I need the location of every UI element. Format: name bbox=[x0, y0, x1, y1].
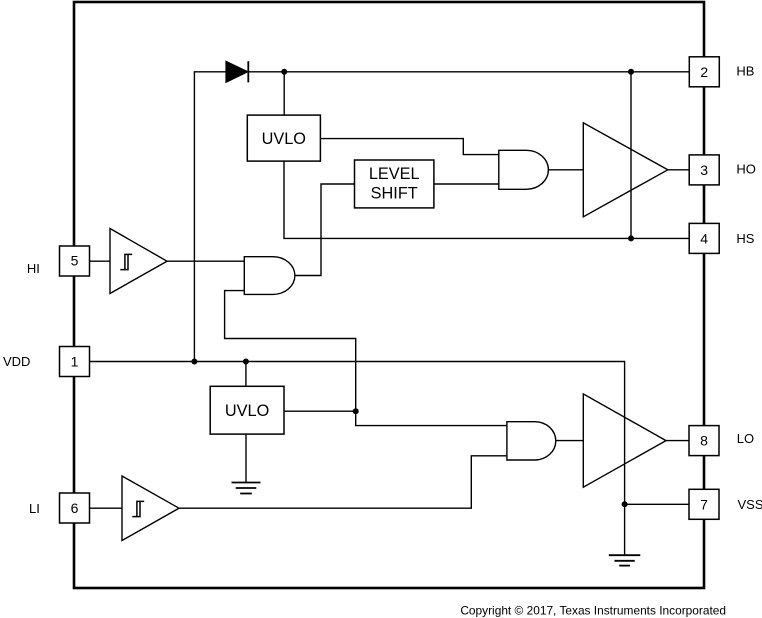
svg-text:HS: HS bbox=[736, 231, 754, 246]
buffer LO driver bbox=[583, 394, 666, 487]
wire LI pin to Schmitt buffer bbox=[90, 507, 123, 509]
node HB-driver junction bbox=[628, 69, 634, 75]
svg-text:LEVEL: LEVEL bbox=[369, 165, 420, 183]
wire HI pin to Schmitt buffer bbox=[90, 260, 111, 262]
buffer HI Schmitt trigger bbox=[110, 229, 167, 294]
ground (VSS) bbox=[609, 555, 641, 565]
pin 8 LO bbox=[689, 426, 719, 456]
wire HB rail (diode cathode to pin 2) bbox=[248, 71, 689, 73]
wire LO driver to pin 8 bbox=[666, 440, 689, 442]
wire high-side UVLO bottom to HS line bbox=[284, 161, 689, 238]
svg-text:LI: LI bbox=[29, 501, 40, 516]
svg-text:8: 8 bbox=[700, 433, 708, 449]
wire VDD to bootstrap diode anode bbox=[194, 72, 226, 362]
node VSS junction bbox=[622, 501, 628, 507]
pin 5 HI bbox=[60, 246, 90, 276]
wire low-side UVLO to ground bbox=[245, 434, 247, 482]
LEVEL SHIFT block bbox=[355, 160, 434, 208]
wire VDD rail pin 1 across and down through LO driver bbox=[90, 362, 625, 505]
svg-text:Copyright © 2017, Texas Instru: Copyright © 2017, Texas Instruments Inco… bbox=[460, 604, 726, 618]
node VDD-UVLO junction bbox=[243, 359, 249, 365]
UVLO block U3 (VDD low side) bbox=[210, 386, 284, 434]
node VDD-bootstrap junction bbox=[191, 359, 197, 365]
wire AND to HO driver bbox=[548, 169, 583, 171]
wire low-side UVLO output bbox=[284, 410, 356, 412]
wire HI buffer to AND gate bbox=[167, 260, 244, 262]
wire VSS line to pin 7 bbox=[625, 503, 689, 505]
AND gate (low side output stage) bbox=[507, 422, 556, 460]
wire VSS to ground bbox=[624, 504, 626, 555]
buffer HO driver bbox=[583, 123, 668, 217]
node HS-driver junction bbox=[628, 235, 634, 241]
wire LI buffer to LO AND gate bbox=[179, 456, 507, 508]
svg-text:5: 5 bbox=[71, 252, 79, 268]
pin 7 VSS bbox=[689, 489, 719, 519]
UVLO block U2 (high side) bbox=[247, 115, 320, 161]
wire UVLO-OK to LO AND gate bbox=[356, 411, 507, 425]
svg-text:2: 2 bbox=[700, 64, 708, 80]
svg-text:UVLO: UVLO bbox=[225, 402, 269, 420]
node UVLO-OK junction bbox=[353, 408, 359, 414]
buffer LI Schmitt trigger bbox=[122, 476, 179, 541]
wire HB to HS through HO driver bbox=[630, 72, 632, 239]
wire HO driver to pin 3 bbox=[668, 169, 689, 171]
svg-text:HO: HO bbox=[736, 162, 756, 177]
wire HI AND output up to LEVEL SHIFT input bbox=[295, 184, 355, 276]
svg-text:4: 4 bbox=[700, 231, 708, 247]
svg-text:VDD: VDD bbox=[3, 354, 30, 369]
wire HB junction down to high-side UVLO bbox=[283, 72, 285, 115]
wire AND to LO driver bbox=[556, 440, 584, 442]
wire VDD UVLO-OK to HI AND gate bbox=[225, 291, 356, 412]
pin 1 VDD bbox=[60, 347, 90, 377]
AND gate (high side input) bbox=[244, 257, 295, 295]
svg-text:VSS: VSS bbox=[738, 497, 762, 512]
pin 2 HB bbox=[689, 57, 719, 87]
svg-text:LO: LO bbox=[737, 431, 754, 446]
svg-text:7: 7 bbox=[700, 496, 708, 512]
IC boundary bbox=[74, 2, 704, 588]
diode D1 bootstrap bbox=[226, 61, 248, 82]
pin 4 HS bbox=[689, 223, 719, 253]
svg-text:HI: HI bbox=[27, 261, 40, 276]
wire LEVEL SHIFT output to AND gate bbox=[434, 183, 499, 185]
svg-text:HB: HB bbox=[736, 63, 754, 78]
svg-text:3: 3 bbox=[700, 162, 708, 178]
svg-text:6: 6 bbox=[71, 500, 79, 516]
AND gate (high side output stage) bbox=[499, 150, 549, 189]
pin 6 LI bbox=[60, 493, 90, 523]
ground (low-side UVLO) bbox=[232, 483, 261, 494]
wire VDD down to low-side UVLO bbox=[245, 362, 247, 387]
svg-text:1: 1 bbox=[71, 354, 79, 370]
pin 3 HO bbox=[689, 155, 719, 185]
svg-text:SHIFT: SHIFT bbox=[371, 185, 418, 203]
wire high-side UVLO output to AND gate bbox=[320, 139, 498, 155]
svg-text:UVLO: UVLO bbox=[262, 130, 306, 148]
node HB-UVLO junction bbox=[281, 69, 287, 75]
